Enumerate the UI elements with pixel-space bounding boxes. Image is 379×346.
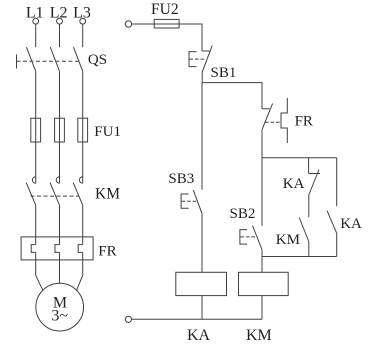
wire node A down to SB2: [261, 158, 263, 226]
terminal control top: [125, 21, 131, 27]
wire junction to FR branch: [202, 83, 262, 109]
switch QS pole 3 blade: [74, 47, 83, 71]
relay contact KA NC seat: [309, 173, 320, 175]
relay contact KA NO blade: [327, 211, 337, 234]
wire KM to FR pole 1: [35, 205, 37, 245]
contactor KM main contact pole 2 hook: [56, 177, 59, 184]
pushbutton SB2 blade: [253, 226, 263, 250]
pushbutton SB1 seat: [202, 50, 210, 52]
pushbutton SB1 link dashed: [190, 58, 206, 60]
coil KM: [239, 272, 289, 295]
wire FR to motor pole 2: [59, 252, 61, 283]
thermal contact FR blade: [262, 103, 273, 129]
svg-text:KM: KM: [95, 186, 120, 203]
wire node A rail right: [262, 157, 337, 159]
thermal contact FR seat: [262, 108, 270, 110]
svg-text:SB2: SB2: [230, 206, 256, 222]
terminal L2: [57, 18, 63, 24]
svg-text:KM: KM: [246, 327, 272, 344]
svg-text:FU2: FU2: [151, 1, 179, 18]
fuse FU2: [154, 19, 179, 28]
wire right branch down: [336, 158, 338, 207]
svg-text:KA: KA: [187, 327, 211, 344]
wire L1 to QS: [35, 24, 37, 47]
svg-text:SB3: SB3: [168, 171, 194, 187]
pushbutton SB2 actuator: [240, 230, 247, 245]
svg-text:FU1: FU1: [94, 124, 121, 140]
contactor KM main contact pole 3 hook: [79, 177, 82, 184]
terminal L1: [33, 18, 39, 24]
thermal relay FR box: [21, 237, 93, 260]
switch QS handle tick: [16, 55, 18, 69]
wire L3 to QS: [82, 24, 84, 47]
wire SB1 to junction: [201, 72, 203, 83]
terminal L3: [80, 18, 86, 24]
pushbutton SB3 actuator: [181, 194, 189, 208]
switch QS pole 2 blade: [50, 47, 59, 71]
svg-text:KA: KA: [283, 176, 305, 192]
switch QS pole 1 blade: [27, 47, 36, 71]
wire SB2 to coil KM: [261, 250, 263, 273]
wire KM NO to node B rail: [308, 242, 310, 257]
thermal contact FR link dashed: [265, 121, 281, 123]
thermal relay FR heater pole 3: [78, 245, 83, 253]
terminal control bottom: [125, 316, 131, 322]
pushbutton SB3 link dashed: [182, 200, 197, 202]
svg-text:FR: FR: [295, 114, 313, 130]
motor M circle: [36, 283, 84, 331]
wire FR to motor pole 3: [77, 252, 83, 290]
svg-text:FR: FR: [98, 243, 116, 259]
wire coil KA to bottom rail: [201, 296, 203, 320]
pushbutton SB2 link dashed: [240, 236, 257, 238]
thermal relay FR heater pole 2: [55, 245, 60, 253]
contactor contact KM NO blade: [299, 218, 309, 242]
wire terminal to FU2 and corner down: [132, 24, 202, 51]
fuse FU1 pole 2: [55, 118, 65, 142]
wire L2 to QS: [59, 24, 61, 47]
switch QS link dashed: [17, 60, 79, 62]
thermal relay FR heater pole 1: [31, 245, 36, 253]
relay contact KA NC blade: [309, 170, 319, 195]
wire SB1 junction down to SB3: [201, 83, 203, 190]
relay contact KA NC seat branch wire: [308, 158, 310, 174]
wire coil KM to bottom rail: [261, 296, 263, 320]
wire QS to FU1 pole2 (through fuse to KM): [59, 71, 61, 183]
pushbutton SB1 blade: [202, 46, 212, 73]
wire bottom rail: [132, 318, 263, 320]
wire FR contact to node A: [261, 130, 263, 158]
svg-text:KA: KA: [340, 216, 362, 232]
wire SB3 to coil KA: [201, 214, 203, 273]
wire QS to FU1 pole3 (through fuse to KM): [82, 71, 84, 183]
pushbutton SB1 actuator: [189, 52, 197, 67]
svg-text:SB1: SB1: [211, 65, 237, 81]
pushbutton SB3 blade: [193, 190, 202, 214]
thermal contact FR bracket: [281, 98, 287, 143]
wire FR to motor pole 1: [36, 252, 43, 290]
fuse FU1 pole 1: [31, 118, 41, 142]
svg-text:3~: 3~: [51, 308, 68, 325]
svg-text:KM: KM: [276, 232, 300, 248]
wire node B rail: [262, 256, 337, 258]
wire KA NO to node B rail: [336, 233, 338, 256]
contactor KM main contact pole 3 blade: [73, 183, 82, 205]
wire QS to FU1 pole1 (through fuse to KM): [35, 71, 37, 183]
contactor KM link dashed: [31, 195, 79, 197]
wire KM to FR pole 2: [59, 205, 61, 245]
wire KM to FR pole 3: [82, 205, 84, 245]
coil KA: [176, 272, 227, 295]
contactor KM main contact pole 1 blade: [26, 183, 35, 205]
wire KA NC to KM NO: [308, 195, 310, 218]
svg-text:QS: QS: [88, 52, 107, 68]
contactor KM main contact pole 1 hook: [32, 177, 35, 184]
contactor KM main contact pole 2 blade: [50, 183, 59, 205]
fuse FU1 pole 3: [78, 118, 88, 142]
